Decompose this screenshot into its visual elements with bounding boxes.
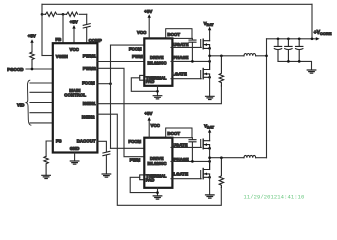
thermal pad symbol driver2 <box>140 175 145 180</box>
node junction (209.6,61.4) <box>208 60 211 63</box>
svg-text:FCCM: FCCM <box>129 47 142 52</box>
resistor R-FS <box>44 156 48 175</box>
svg-text:PWM1: PWM1 <box>83 53 97 58</box>
wire VSEN sense: top feedback wire from output to VSEN <box>42 3 312 5</box>
node junction cap3 (299.2,38.8) <box>298 37 301 40</box>
svg-text:VID: VID <box>17 103 24 108</box>
node junction FB (63,14.3) <box>62 13 65 16</box>
wire FS pin <box>46 141 53 156</box>
wire output riser x=266.5 <box>266 39 268 158</box>
svg-text:ISEN2: ISEN2 <box>82 114 95 119</box>
wire phase1 node to inductor <box>210 55 244 57</box>
svg-text:+5V: +5V <box>144 111 152 116</box>
svg-text:FS: FS <box>56 139 62 144</box>
transistor Q4 low-side MOSFET <box>200 171 202 179</box>
inductor L2 <box>244 155 256 157</box>
wire PGOOD <box>26 68 53 70</box>
svg-text:VCC: VCC <box>151 123 160 128</box>
svg-text:PHASE: PHASE <box>173 55 188 60</box>
resistor R-ISEN1 <box>219 56 223 86</box>
wire thermal pad to ground <box>131 78 157 92</box>
transistor Q3 high-side MOSFET <box>200 140 202 148</box>
resistor R-ISEN2 <box>219 158 223 188</box>
wire thermal pad2 to ground <box>130 177 157 192</box>
wire L2 to output riser <box>256 157 267 159</box>
BOOT pin box driver2 <box>166 128 192 138</box>
wire ISEN2 <box>97 114 221 205</box>
node junction FCCM (110.5,83.7) <box>109 82 112 85</box>
svg-text:LGATE: LGATE <box>172 71 187 76</box>
svg-text:+5V: +5V <box>70 20 78 25</box>
svg-text:FCCM: FCCM <box>82 80 95 85</box>
node junction Q4 source (209.6,177.3) <box>208 176 211 179</box>
svg-text:PWM: PWM <box>132 54 143 59</box>
wire Q4 source to ground <box>209 177 211 195</box>
node junction Q2 source (209.6,77.3) <box>208 76 211 79</box>
node junction (192.4,61.4) <box>191 60 194 63</box>
driver U3 box <box>144 138 172 188</box>
node junction (157.5,91.3) <box>156 90 159 93</box>
ground driver2 <box>153 196 162 199</box>
wire FB divider row y=14.3 <box>42 13 87 15</box>
capacitor C-OUT1 <box>274 39 281 62</box>
svg-text:VCC: VCC <box>70 47 79 52</box>
svg-text:VCC: VCC <box>137 30 146 35</box>
wire ISEN1 <box>97 86 221 104</box>
capacitor C-DACOUT <box>103 151 110 155</box>
thermal pad symbol driver1 <box>140 75 145 80</box>
wire UGATE to Q1 gate <box>171 46 201 48</box>
svg-text:DACOUT: DACOUT <box>77 139 96 144</box>
inductor L1 <box>244 54 256 56</box>
arrow +V_CORE <box>316 37 320 40</box>
node junction (42,14.3) <box>41 13 44 16</box>
node junction (209.6,157.7) <box>208 156 211 159</box>
BOOT pin box driver1 <box>166 29 192 39</box>
wire BOOT to bootstrap cap <box>191 38 193 61</box>
node junction (157.5,192.6) <box>156 191 159 194</box>
svg-text:FB: FB <box>55 37 61 42</box>
wire PWM2 <box>97 68 144 156</box>
capacitor C-BOOT1 <box>189 40 196 42</box>
wire L1 to output node <box>256 55 267 57</box>
wire FB down to pin <box>62 14 64 43</box>
svg-text:+5V: +5V <box>28 34 36 39</box>
wire phase2 rail <box>209 148 211 169</box>
wire vertical x=42 VSEN riser <box>41 4 43 55</box>
node junction bus (299.2,61.4) <box>298 60 301 63</box>
wire U3 GND down <box>157 188 159 196</box>
capacitor C-OUT2 <box>285 39 292 62</box>
transistor Q2 low-side MOSFET <box>200 71 202 79</box>
resistor R-FB1 <box>46 12 57 16</box>
node junction Q3 source (209.6,148.4) <box>208 147 211 150</box>
svg-text:FCCM: FCCM <box>128 139 141 144</box>
wire COMP branch down <box>86 14 88 43</box>
wire top sense drop x=312 <box>311 4 313 39</box>
wire FCCM to driver2 <box>111 147 145 149</box>
wire PWM1 to driver1 <box>97 61 144 63</box>
VID brace <box>26 80 31 125</box>
driver U2 box <box>144 38 172 85</box>
svg-text:BOOT: BOOT <box>167 32 180 37</box>
ground Q2 <box>206 96 215 99</box>
svg-text:UGATE: UGATE <box>173 142 188 147</box>
ground output caps <box>307 70 316 73</box>
supply +5V main VCC arrow <box>73 28 75 43</box>
wire phase2 node to inductor <box>210 157 244 159</box>
svg-text:PWM2: PWM2 <box>83 66 97 71</box>
svg-text:PGOOD: PGOOD <box>7 67 23 72</box>
svg-text:VSEN: VSEN <box>56 54 68 59</box>
node junction ISEN2 tap (221.4,157.7) <box>220 156 223 159</box>
svg-text:PAD: PAD <box>146 178 155 183</box>
node junction (32,69) <box>31 68 34 71</box>
ground Q4 <box>206 195 215 198</box>
main control IC U1 box <box>53 43 98 152</box>
svg-text:ISL6208C: ISL6208C <box>147 161 166 166</box>
wire PHASE2 <box>171 160 210 162</box>
svg-text:+VCORE: +VCORE <box>314 30 332 36</box>
node junction bus (288.4,61.4) <box>287 60 290 63</box>
svg-text:+5V: +5V <box>144 9 152 14</box>
wire UGATE2 to Q3 gate <box>171 146 201 148</box>
wire DACOUT <box>97 141 106 174</box>
node junction (209.6,55.8) <box>208 54 211 57</box>
svg-text:PAD: PAD <box>146 79 155 84</box>
wire Q2 source to ground <box>209 77 211 96</box>
capacitor C-COMP <box>83 24 90 28</box>
ground FS <box>42 175 51 178</box>
ground U1 GND <box>70 161 79 164</box>
ground DACOUT <box>102 174 111 177</box>
svg-text:ISEN1: ISEN1 <box>83 101 96 106</box>
svg-text:BOOT: BOOT <box>167 131 180 136</box>
node junction (209.6,161.4) <box>208 160 211 163</box>
node junction Q1 source/body (209.6,48.4) <box>208 47 211 50</box>
svg-text:PWM: PWM <box>130 157 141 162</box>
transistor Q1 high-side MOSFET <box>200 40 202 48</box>
wire FCCM to driver1 <box>111 44 145 46</box>
svg-text:GND: GND <box>70 146 80 151</box>
ground driver1 <box>153 96 162 99</box>
wire U2 GND down <box>157 86 159 96</box>
wire FCCM pin <box>97 83 110 85</box>
node junction (192.4,161.4) <box>191 160 194 163</box>
wire cap ground bus <box>278 61 312 70</box>
wire PHASE <box>171 60 210 62</box>
node junction cap1 (278,38.8) <box>277 37 280 40</box>
svg-text:UGATE: UGATE <box>173 42 188 47</box>
svg-text:CONTROL: CONTROL <box>64 93 86 98</box>
capacitor C-BOOT2 <box>189 140 196 142</box>
node junction cap2 (288.4,38.8) <box>287 37 290 40</box>
node junction (266.5,55.8) <box>265 54 268 57</box>
resistor R-PGOOD pullup <box>30 52 34 69</box>
wire VSEN pin <box>42 55 53 57</box>
wire FCCM fan vertical <box>110 45 112 148</box>
capacitor C-OUT3 <box>296 39 303 62</box>
wire phase1 rail Q1 source to Q2 drain <box>209 48 211 69</box>
node junction (312,38.8) <box>311 37 314 40</box>
svg-text:11/29/201214:41:10: 11/29/201214:41:10 <box>244 194 305 201</box>
svg-text:LGATE: LGATE <box>174 171 189 176</box>
node junction ISEN1 tap (221.4,55.8) <box>220 54 223 57</box>
wire BOOT2 to bootstrap cap <box>191 138 193 162</box>
svg-text:ISL6208C: ISL6208C <box>147 60 166 65</box>
resistor R-FB2 <box>67 12 78 16</box>
VID bus wires (5) <box>30 83 53 123</box>
wire GND pin <box>74 153 76 161</box>
wire LGATE to Q2 gate <box>171 78 201 80</box>
wire LGATE2 to Q4 gate <box>171 178 201 180</box>
wire output rail <box>267 38 317 40</box>
